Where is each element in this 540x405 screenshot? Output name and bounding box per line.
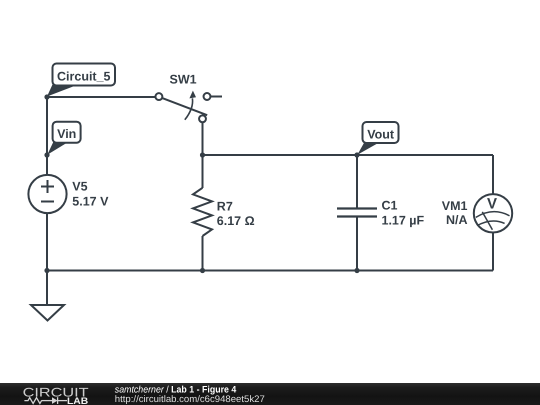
- svg-text:1.17 µF: 1.17 µF: [382, 213, 425, 227]
- svg-text:SW1: SW1: [170, 73, 197, 87]
- junction node A: [44, 94, 49, 99]
- svg-text:Vin: Vin: [57, 127, 76, 141]
- junction Vout node: [354, 152, 359, 157]
- wire voltmeter top lead: [492, 155, 494, 194]
- svg-text:VM1: VM1: [442, 199, 468, 213]
- junction ground rail: [44, 268, 49, 273]
- svg-text:C1: C1: [382, 199, 398, 213]
- wire switch bottom terminal down to mid rail: [202, 122, 204, 155]
- label V5 value: [72, 179, 109, 208]
- svg-text:Circuit_5: Circuit_5: [57, 70, 111, 84]
- label VM1 value: [442, 199, 468, 227]
- wire V5 bottom to ground junction: [46, 213, 48, 271]
- svg-text:N/A: N/A: [446, 213, 468, 227]
- wire resistor bottom lead: [202, 236, 204, 271]
- node Vout flag: [357, 122, 398, 155]
- svg-text:5.17 V: 5.17 V: [72, 195, 109, 209]
- svg-text:6.17 Ω: 6.17 Ω: [217, 214, 255, 228]
- switch SW1: [155, 93, 210, 122]
- junction Vin node: [44, 152, 49, 157]
- resistor R7: [193, 188, 212, 236]
- junction mid rail left: [200, 152, 205, 157]
- svg-text:Vout: Vout: [367, 128, 395, 142]
- wire capacitor bottom lead: [356, 217, 358, 271]
- wire top horizontal node A to switch: [47, 96, 156, 98]
- CircuitLab logo zigzag and diode: [24, 397, 67, 404]
- svg-text:R7: R7: [217, 199, 233, 213]
- svg-text:V5: V5: [72, 179, 87, 193]
- junction bottom rail R7: [200, 268, 205, 273]
- capacitor C1: [337, 209, 377, 217]
- node Vin flag: [47, 122, 80, 155]
- wire left vertical from node A to V5: [46, 97, 48, 176]
- wire switch right stub: [210, 96, 222, 98]
- wire ground stem: [46, 271, 48, 306]
- wire resistor top lead: [202, 155, 204, 188]
- label R7 value: [217, 199, 255, 228]
- wire capacitor top lead: [356, 155, 358, 209]
- junction bottom rail C1: [354, 268, 359, 273]
- wire mid horizontal rail: [203, 154, 494, 156]
- voltmeter VM1: [474, 194, 512, 232]
- switch SW1 arrow: [185, 91, 196, 120]
- svg-text:LAB: LAB: [67, 396, 88, 405]
- wire bottom horizontal rail: [47, 270, 493, 272]
- svg-text:http://circuitlab.com/c6c948ee: http://circuitlab.com/c6c948eet5k27: [115, 394, 265, 405]
- svg-text:V: V: [487, 196, 497, 213]
- wire voltmeter bottom lead: [492, 233, 494, 271]
- label C1 value: [382, 199, 425, 228]
- voltage source V5: [28, 175, 66, 213]
- ground: [31, 305, 64, 321]
- node Circuit_5 flag: [47, 64, 115, 97]
